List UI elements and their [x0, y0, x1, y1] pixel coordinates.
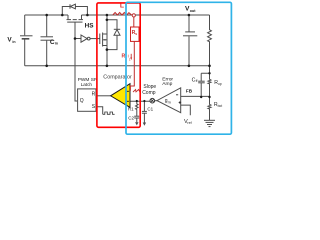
diode D_HS body — [62, 7, 70, 16]
battery V_in — [24, 15, 26, 35]
resistor R_bot — [208, 97, 211, 120]
svg-text:bot: bot — [218, 104, 223, 108]
highlight box red — [97, 3, 140, 127]
svg-text:R: R — [122, 54, 126, 60]
svg-text:L: L — [129, 58, 131, 62]
transistor LS — [99, 34, 101, 45]
capacitor C_ff — [200, 73, 202, 81]
capacitor C2 — [134, 115, 139, 117]
summer node — [150, 98, 155, 103]
svg-text:out: out — [190, 9, 197, 13]
svg-text:in: in — [12, 40, 15, 44]
wire comparator output to R — [96, 95, 111, 97]
transistor HS — [67, 15, 69, 19]
svg-text:s: s — [135, 32, 137, 36]
wire switch node vertical — [106, 15, 108, 66]
wire FB node — [181, 95, 210, 97]
wire Rs to comparator — [130, 41, 134, 90]
svg-text:Q: Q — [80, 98, 84, 104]
resistor R_o — [208, 15, 212, 66]
svg-text:C2: C2 — [128, 116, 134, 121]
wire ground rail — [25, 65, 210, 67]
wire Vref — [181, 105, 191, 115]
highlight box blue — [126, 2, 231, 134]
svg-text:up: up — [218, 82, 222, 86]
wire tap to Rs — [133, 17, 135, 27]
resistor Rs box — [131, 27, 140, 41]
svg-text:HS: HS — [85, 23, 95, 30]
svg-text:Comp: Comp — [142, 90, 156, 96]
svg-text:C1: C1 — [147, 107, 153, 112]
comparator U1 — [111, 84, 130, 108]
svg-text:ff: ff — [196, 79, 198, 83]
latch U3 box — [78, 89, 96, 111]
capacitor C1 — [143, 101, 145, 111]
driver U2 buffer — [75, 38, 81, 40]
sawtooth icon — [133, 90, 140, 93]
ground GND1 — [204, 119, 215, 121]
diode D_LS — [107, 20, 117, 29]
node dots — [45, 14, 210, 102]
capacitor C_o — [188, 15, 190, 32]
ground arrow A2 — [143, 123, 146, 126]
svg-text:R1: R1 — [128, 107, 134, 112]
wire S input with clock — [96, 107, 103, 115]
svg-text:in: in — [55, 42, 58, 46]
svg-text:R: R — [92, 92, 96, 98]
inductor L — [113, 13, 132, 16]
wire top rail — [25, 14, 68, 16]
node SW tap circle — [132, 14, 135, 17]
wire comp lower input to summer — [130, 100, 150, 102]
svg-text:Amp: Amp — [162, 81, 172, 87]
labels black — [7, 6, 222, 126]
wire divider feed — [201, 66, 209, 74]
labels red — [103, 3, 137, 81]
resistor R_up — [208, 73, 211, 97]
svg-text:Latch: Latch — [81, 82, 93, 87]
resistor R1 — [136, 101, 139, 116]
svg-text:FB: FB — [186, 89, 193, 94]
svg-text:ref: ref — [187, 121, 191, 125]
svg-text:m: m — [168, 100, 171, 104]
capacitor C_in — [46, 15, 48, 36]
wire HS gate to latch Q — [75, 22, 77, 101]
svg-text:Comparator: Comparator — [103, 74, 132, 80]
ground arrow A1 — [135, 122, 138, 125]
op-amp EA gm — [155, 100, 158, 102]
